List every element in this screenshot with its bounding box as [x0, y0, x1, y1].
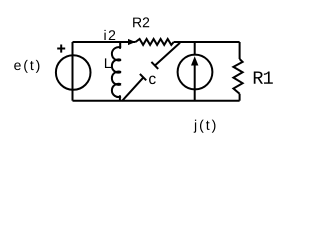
label i2 [104, 30, 115, 40]
inductor L loop 1 [112, 47, 121, 60]
inductor L loop 4 [112, 84, 121, 97]
capacitor c lower lead [122, 77, 143, 101]
capacitor c upper plate [151, 62, 158, 69]
inductor L top lead [119, 42, 122, 48]
label R2 [133, 17, 149, 27]
wire left branch [72, 42, 74, 101]
capacitor c upper lead [155, 43, 180, 66]
label c [149, 76, 156, 84]
inductor L bottom lead [119, 96, 122, 100]
wire right branch bottom [239, 94, 241, 101]
resistor R1 [233, 59, 242, 94]
label j(t) [194, 120, 216, 133]
wire right branch top [239, 42, 241, 59]
inductor L loop 2 [112, 59, 121, 72]
current source arrowhead [191, 56, 198, 65]
wire bottom [73, 100, 240, 102]
plus sign of voltage source [57, 45, 65, 53]
capacitor c lower plate [140, 74, 146, 80]
label e(t) [14, 60, 39, 73]
label L [105, 58, 111, 68]
wire top-left segment [73, 41, 136, 43]
inductor L loop 3 [112, 72, 121, 85]
resistor R2 [136, 39, 174, 45]
voltage source U1 circle [56, 55, 91, 90]
wire current-source branch top [194, 42, 196, 55]
arrow i2 head [128, 39, 136, 45]
wire top-right segment [174, 41, 240, 43]
wire current-source branch bottom [194, 62, 196, 101]
label R1 [254, 71, 273, 83]
current source J1 circle [178, 55, 213, 90]
